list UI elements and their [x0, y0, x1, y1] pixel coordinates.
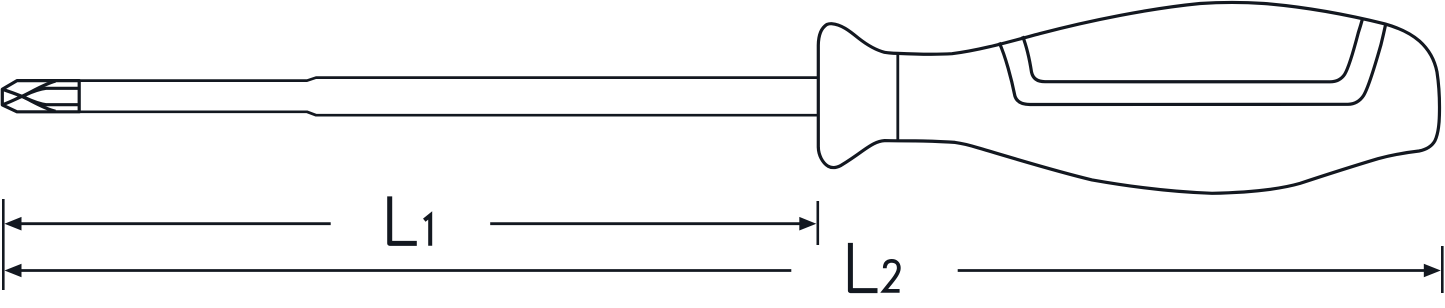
L2 right arrowhead: [1424, 264, 1441, 278]
bolster and handle outline: [818, 2, 1439, 193]
L1 left arrowhead: [5, 217, 22, 231]
L2 right extension tick: [1441, 246, 1444, 293]
label L2 subscript 2: [884, 261, 899, 291]
bolster divider line: [896, 53, 899, 141]
phillips tip flute upper-left to lower edge S-curve: [3, 89, 56, 111]
phillips tip flute lower shallow: [22, 96, 79, 104]
grip inset outer outline: [999, 25, 1385, 105]
L1 dimension line right segment: [490, 222, 804, 225]
phillips tip flute lower-left to upper edge S-curve: [3, 81, 56, 105]
grip inset inner outline: [1023, 20, 1363, 82]
label L1 subscript 1: [424, 215, 430, 245]
phillips tip outline: [2, 81, 79, 112]
L2 left arrowhead: [5, 264, 22, 278]
label L2 letter L: [850, 243, 877, 291]
L2 dimension line right segment: [958, 269, 1429, 272]
blade narrow section top edge: [79, 78, 819, 81]
left extension tick (shared): [2, 199, 5, 290]
blade narrow section bottom edge: [79, 112, 819, 115]
phillips tip flute upper shallow: [22, 88, 79, 96]
label L1 letter L: [390, 196, 417, 243]
L1 dimension line left segment: [18, 222, 331, 225]
L2 dimension line left segment: [18, 269, 791, 272]
L1 right arrowhead: [799, 217, 816, 231]
L1 right extension tick: [816, 201, 819, 245]
